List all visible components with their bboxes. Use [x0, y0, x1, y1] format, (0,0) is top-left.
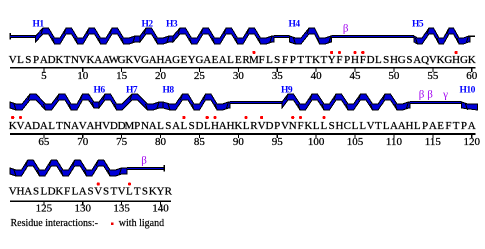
svg-text:70: 70 [77, 136, 89, 148]
svg-text:H10: H10 [460, 86, 476, 96]
svg-text:140: 140 [152, 202, 169, 214]
svg-text:20: 20 [155, 70, 167, 82]
helix H5 cont [10, 94, 99, 110]
svg-text:60: 60 [466, 70, 478, 82]
svg-text:135: 135 [113, 202, 130, 214]
svg-text:50: 50 [388, 70, 400, 82]
svg-text:H6: H6 [94, 86, 106, 96]
svg-text:VLSPADKTNVKAAWGKVGAHAGEYGAEALE: VLSPADKTNVKAAWGKVGAHAGEYGAEALERMFLSFPTTK… [9, 54, 476, 66]
helix H3 [173, 28, 274, 44]
svg-text:H1: H1 [33, 20, 45, 30]
svg-text:65: 65 [38, 136, 50, 148]
svg-text:85: 85 [194, 136, 206, 148]
svg-text:95: 95 [272, 136, 284, 148]
helix H10 cont [10, 160, 127, 176]
helix H2 [140, 28, 173, 44]
ruler row1 [10, 67, 476, 69]
svg-text:30: 30 [233, 70, 245, 82]
svg-text:H4: H4 [289, 20, 301, 30]
wire coil C-term [127, 167, 164, 170]
svg-text:H8: H8 [163, 86, 175, 96]
svg-text:80: 80 [155, 136, 167, 148]
ruler row3 [10, 201, 171, 203]
wire coil C-D [274, 35, 290, 38]
svg-text:35: 35 [272, 70, 284, 82]
wire coil row1 end [468, 35, 475, 36]
svg-text:H2: H2 [142, 20, 154, 30]
helix H5 [414, 28, 470, 44]
svg-text:H9: H9 [281, 86, 293, 96]
helix H9 [282, 94, 410, 110]
svg-text:90: 90 [233, 136, 245, 148]
helix H4 [290, 28, 332, 44]
svg-text:100: 100 [308, 136, 325, 148]
svg-text:115: 115 [425, 136, 442, 148]
svg-text:40: 40 [311, 70, 323, 82]
svg-text:130: 130 [74, 202, 91, 214]
ruler row2 [10, 133, 476, 135]
svg-text:with ligand: with ligand [119, 218, 164, 229]
svg-text:γ: γ [442, 89, 448, 101]
wire coil F-G row2 [410, 101, 462, 104]
row 1 N-terminus tick [9, 33, 11, 40]
legend ligand dot [111, 222, 114, 225]
ligand contact dots row2 [11, 116, 14, 119]
svg-text:55: 55 [427, 70, 439, 82]
helix H1 [36, 28, 141, 44]
svg-text:45: 45 [350, 70, 362, 82]
svg-text:H7: H7 [126, 86, 138, 96]
svg-text:125: 125 [36, 202, 53, 214]
helix H10 start [462, 102, 478, 110]
svg-text:KVADALTNAVAHVDDMPNALSALSDLHAHK: KVADALTNAVAHVDDMPNALSALSDLHAHKLRVDPVNFKL… [9, 120, 476, 132]
helix H8 [163, 94, 230, 110]
wire coil D-E [332, 35, 415, 38]
svg-text:105: 105 [347, 136, 364, 148]
svg-text:75: 75 [116, 136, 128, 148]
svg-text:120: 120 [463, 136, 480, 148]
svg-text:10: 10 [77, 70, 89, 82]
wire coil E-F row2 [230, 101, 282, 104]
svg-text:15: 15 [116, 70, 128, 82]
svg-text:5: 5 [41, 70, 47, 82]
svg-text:110: 110 [386, 136, 403, 148]
svg-text:H5: H5 [412, 20, 424, 30]
ligand contact dots row3 [97, 182, 100, 185]
svg-text:β: β [427, 89, 433, 101]
helix H6 H7 [99, 94, 163, 110]
svg-text:β: β [141, 155, 147, 167]
row 3 C-terminus tick [163, 165, 165, 172]
svg-text:β: β [343, 23, 349, 35]
svg-text:VHASLDKFLASVSTVLTSKYR: VHASLDKFLASVSTVLTSKYR [9, 186, 173, 198]
ligand contact dots row1 [252, 51, 255, 54]
wire coil N-term [10, 35, 36, 38]
svg-text:Residue interactions:-: Residue interactions:- [11, 218, 98, 229]
svg-text:25: 25 [194, 70, 206, 82]
svg-text:H3: H3 [166, 20, 178, 30]
svg-text:β: β [419, 89, 425, 101]
